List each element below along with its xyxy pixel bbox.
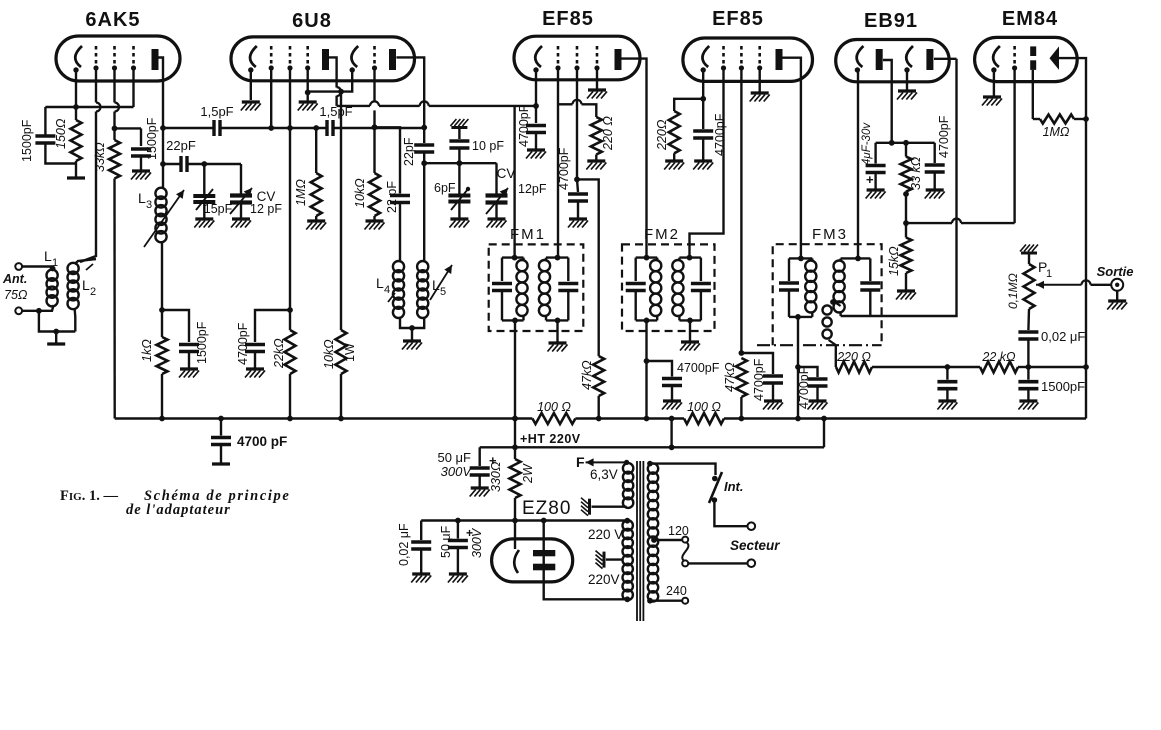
node V4 cathode junction: [700, 96, 706, 102]
label tube V3 EF85: [542, 8, 594, 30]
anode lead V4: [783, 58, 801, 259]
flexible link: [682, 542, 688, 560]
wire EZ80 plates loop: [544, 521, 628, 600]
label R9 47k: [580, 360, 594, 390]
wire V4 g3 to ground: [759, 68, 761, 92]
wire R5 to ground: [315, 216, 317, 221]
wire FM2 sec leads b: [678, 316, 680, 320]
ground below C14: [763, 401, 783, 410]
ground below C18: [1018, 401, 1038, 410]
svg-text:CV: CV: [497, 166, 516, 181]
cathode arc EZ80: [514, 550, 519, 573]
resistor R17 100 decoupling: [532, 413, 575, 424]
label L3 subscript: [146, 199, 152, 211]
wire R3 to rail: [161, 374, 163, 419]
label R16 1M: [1043, 125, 1070, 139]
wire FM1 sec leads b: [545, 316, 547, 320]
anode lead V2 pentode: [329, 57, 337, 87]
ground above C9: [450, 119, 468, 128]
caption figure line1a: [60, 488, 118, 504]
label C20 4700pF: [937, 115, 951, 158]
wire V1 g2 down: [113, 112, 115, 141]
inductor FM2 secondary: [672, 260, 683, 316]
svg-text:0,02 μF: 0,02 μF: [1041, 329, 1085, 344]
wire C2 top lead: [140, 128, 142, 146]
transformer FM3 box: [757, 244, 882, 345]
node HV bottom: [624, 596, 630, 602]
wire CV1 to ground: [240, 203, 242, 220]
svg-text:300V: 300V: [441, 464, 473, 479]
ground below CT2: [449, 219, 469, 228]
label R12 220: [836, 350, 871, 364]
wire R15 to ground: [905, 273, 907, 291]
wire bus y128 mid: [220, 127, 327, 129]
capacitor C10 4700pF: [245, 345, 265, 352]
label C9 10pF: [472, 139, 504, 153]
antenna terminal top: [15, 263, 22, 270]
label C13 4700pF: [713, 113, 727, 156]
wire FM1 coil leads2: [522, 316, 524, 320]
node rail FM2 tap: [669, 416, 675, 422]
svg-text:50 μF: 50 μF: [439, 525, 453, 558]
wire C12 to ground: [577, 201, 579, 219]
capacitor C16 4700pF: [808, 379, 828, 386]
anode lead V3: [622, 59, 647, 258]
svg-text:EM84: EM84: [1002, 8, 1058, 30]
potentiometer P1 0.1M: [1024, 264, 1035, 309]
label 240: [666, 584, 687, 598]
capacitor C12 4700pF screen: [568, 194, 588, 201]
ground below C6: [179, 369, 199, 378]
node osc grid cap tap dot: [372, 124, 378, 130]
node FM3 junction 367: [795, 364, 801, 370]
node FM3 rail: [795, 416, 801, 422]
wire V1 cathode: [75, 70, 77, 107]
label L2: [82, 277, 90, 293]
node FM3 tank1 lead: [798, 256, 804, 262]
label tube V7 EZ80: [522, 498, 571, 519]
tube V4 EF85: [683, 38, 813, 81]
node V4 g2 junction: [739, 350, 745, 356]
svg-text:EB91: EB91: [864, 10, 918, 32]
ground sideways HV tap: [596, 551, 605, 569]
switch Int: [709, 472, 722, 503]
node FM2 tank1 lead: [644, 255, 650, 261]
wire bus y106 c: [429, 105, 536, 107]
label C3 1.5pF: [200, 104, 233, 119]
hop branch over g2: [573, 100, 582, 105]
svg-text:22 kΩ: 22 kΩ: [981, 350, 1016, 364]
wire R19 to cathode line: [514, 498, 516, 521]
resistor R19 330 2W: [510, 459, 521, 498]
wire FM3 tank1 cap bottom: [788, 290, 790, 317]
svg-text:3: 3: [146, 199, 152, 211]
wire HV center tap: [606, 558, 623, 560]
node FM2 tank1 bottom lead: [644, 318, 650, 324]
wire V4 cathode: [702, 70, 704, 129]
label L5: [432, 277, 440, 293]
inductor FM3 secondary: [834, 261, 845, 313]
wire EB91 cathode1 to FM3: [857, 70, 859, 258]
svg-text:1,5pF: 1,5pF: [200, 104, 233, 119]
terminal secteur 2: [748, 559, 756, 567]
wire V3 cathode: [535, 70, 537, 123]
label P1: [1038, 259, 1047, 275]
label L3: [138, 190, 146, 206]
wire V2 g1 pin to bus: [270, 68, 272, 128]
wire V2 g3 pin down: [307, 68, 309, 102]
wire C24 lead: [457, 521, 459, 539]
wire trimmer CT1 lead: [203, 164, 205, 194]
wire FM2 tank1 cap bottom: [635, 291, 637, 321]
wire EZ80 cathode lead: [514, 521, 516, 550]
svg-text:FIG. 1. —: FIG. 1. —: [60, 488, 118, 504]
wire R11 to rail: [740, 397, 742, 419]
ground below C22: [212, 462, 230, 465]
node V3 cathode junction: [533, 103, 539, 109]
label C1 1500pF: [20, 119, 34, 162]
ground below R15: [896, 291, 916, 300]
wire branch to C6: [162, 310, 189, 342]
wire FM3 prim leads b: [811, 312, 813, 317]
wire C12 lead: [577, 179, 578, 192]
label P1 subscript: [1046, 268, 1052, 280]
svg-text:L: L: [432, 277, 440, 293]
wire C6 to ground: [188, 352, 190, 370]
inductor L4: [388, 261, 404, 318]
wire C5 to CV1: [187, 163, 241, 165]
wire V3 g2 down: [576, 68, 578, 179]
svg-text:1500pF: 1500pF: [1041, 379, 1085, 394]
wire CV1 top lead: [240, 164, 242, 194]
caption figure line2: [126, 502, 231, 518]
wire switch to secteur1: [714, 500, 747, 526]
label tube V4 EF85: [712, 8, 764, 30]
wire bus y106 a: [337, 105, 370, 107]
capacitor FM2 tank1: [626, 284, 646, 291]
wire C9 to y163: [458, 148, 460, 163]
wire FM2 tank1 down: [645, 320, 647, 418]
wire CV2 top lead: [495, 163, 497, 193]
wire C24 to ground: [457, 548, 459, 575]
label R15 15k: [887, 246, 901, 276]
wire R1 to ground: [75, 161, 77, 178]
wire resistor R1 leads: [75, 107, 77, 120]
ground below FM2: [680, 342, 700, 351]
wire 6.3V bottom: [592, 506, 627, 508]
svg-text:4700pF: 4700pF: [937, 115, 951, 158]
node R14 bottom: [903, 191, 909, 197]
wire tertiary down: [835, 345, 837, 367]
svg-text:220 V: 220 V: [588, 527, 623, 542]
svg-text:4700pF: 4700pF: [677, 361, 720, 375]
wire tap 120: [653, 539, 682, 541]
svg-text:10kΩ: 10kΩ: [353, 178, 367, 208]
node V2 g3 junction: [305, 90, 311, 96]
wire FM1 tank1 top: [502, 256, 524, 258]
wire C2 bottom lead: [140, 156, 142, 171]
ground below R5: [306, 221, 326, 230]
wire divider to EM84 grid a: [906, 222, 952, 224]
svg-text:12pF: 12pF: [518, 182, 547, 196]
wire branch to C10: [255, 310, 290, 342]
wire C18 to ground: [1027, 389, 1029, 401]
resistor R5 1M: [311, 173, 322, 216]
wire L1 bottom: [39, 305, 54, 311]
rail y418 mid: [575, 417, 684, 419]
label C6 1500pF: [195, 321, 209, 364]
inductor FM1 secondary: [539, 260, 550, 316]
wire V1 g1 to L2: [95, 68, 97, 103]
svg-text:Int.: Int.: [724, 479, 744, 494]
wire C17 lead: [946, 367, 948, 380]
wire ant bottom terminal: [22, 310, 39, 312]
wire C23 from HT rail: [479, 447, 481, 466]
wire tap 240: [648, 600, 682, 602]
label R6 1W: [343, 343, 357, 362]
wire triode cathode staircase: [308, 71, 353, 92]
resistor R15 15k: [901, 238, 912, 274]
wire capacitor C1 bottom lead: [45, 143, 76, 164]
node g2 6U8 on bus: [287, 125, 293, 131]
node anode V1 y164: [160, 161, 166, 167]
winding primary: [648, 463, 658, 601]
wire FM1 tank1 sides: [501, 258, 503, 281]
ground below V4 g3: [750, 93, 770, 102]
inductor FM3 primary: [805, 261, 816, 313]
node FM2 tank2 bottom lead: [687, 318, 693, 324]
wire L4 L5 common: [400, 317, 424, 328]
capacitor FM1 tank1: [492, 284, 512, 291]
wire branch to C16: [798, 367, 818, 377]
label FM1: [510, 226, 546, 243]
svg-text:EF85: EF85: [712, 8, 764, 30]
label F: [576, 454, 585, 470]
ground below CV2: [487, 219, 507, 228]
label C2 1500pF: [145, 117, 159, 160]
wire FM3 sec leads b: [839, 312, 841, 316]
node osc grid cap tap: [372, 124, 378, 130]
label L4 subscript: [384, 284, 390, 296]
hop anode1 over staircase: [337, 87, 342, 96]
wire C20 to ground: [934, 172, 936, 190]
svg-text:22 pF: 22 pF: [385, 181, 399, 213]
wire R10 to ground: [673, 153, 675, 161]
ground below C11: [526, 150, 546, 159]
wire rail drop to HT: [823, 419, 825, 448]
transformer FM1 box: [489, 244, 584, 331]
capacitor C2 1500pF g2 bypass: [131, 149, 151, 156]
capacitor FM3 secondary cap: [860, 283, 880, 290]
node FM3 tank1 bottom lead: [795, 314, 801, 320]
capacitor C5 22pF: [181, 156, 187, 172]
capacitor C18 1500pF: [1018, 382, 1038, 389]
ground below CV1: [231, 219, 251, 228]
label tube V6 EM84: [1002, 8, 1058, 30]
svg-text:220 Ω: 220 Ω: [601, 116, 615, 151]
resistor R2 33k screen: [109, 140, 120, 179]
svg-text:33kΩ: 33kΩ: [93, 142, 107, 172]
label R18 100: [687, 400, 721, 414]
inductor FM2 primary: [650, 260, 661, 316]
svg-text:15kΩ: 15kΩ: [887, 246, 901, 276]
inductor L3 oscillator coil: [144, 188, 184, 247]
node cathode tap: [512, 518, 518, 524]
label C15 4700pF: [677, 361, 720, 375]
hop wiper over HT line: [1082, 280, 1091, 285]
wire R5 top lead: [315, 128, 317, 173]
svg-text:4: 4: [384, 284, 390, 296]
label tube V2 6U8: [292, 10, 332, 32]
node 1M on bus: [313, 125, 319, 131]
svg-text:2: 2: [90, 286, 96, 298]
svg-text:22pF: 22pF: [402, 137, 416, 166]
label CT2 6pF: [434, 181, 456, 195]
label R4 10k: [353, 178, 367, 208]
node R3 rail: [159, 416, 165, 422]
label C5 22pF: [166, 138, 196, 153]
node primary tap 120: [651, 537, 657, 543]
label P1 value: [1006, 273, 1020, 309]
wire divider to EM84 grid b: [961, 222, 1015, 224]
wire coil ground stem: [411, 328, 413, 341]
label R17 100: [537, 400, 571, 414]
label R13 22k: [981, 350, 1016, 364]
wire detector node bus: [876, 142, 935, 144]
wire R9 to rail: [598, 396, 600, 419]
wire C14 to ground: [772, 383, 774, 401]
label R1 150 ohm: [54, 118, 68, 149]
winding 6.3V: [623, 463, 633, 508]
svg-text:6AK5: 6AK5: [85, 9, 140, 31]
node HT feed rail1: [512, 416, 518, 422]
wire R16 to anode line: [1074, 118, 1086, 120]
svg-text:Sortie: Sortie: [1097, 264, 1134, 279]
node FM2 tank2 lead: [687, 255, 693, 261]
svg-text:12 pF: 12 pF: [250, 202, 282, 216]
wire FM2 tank2 cap side: [700, 258, 702, 281]
node C24 tap: [455, 518, 461, 524]
ground below R10: [664, 161, 684, 170]
svg-text:4700 pF: 4700 pF: [237, 434, 287, 449]
node FM1 rail: [512, 416, 518, 422]
wire V4 g1 to FM2: [690, 68, 724, 258]
label C21 0.02uF: [1041, 329, 1085, 344]
ground below FM1: [548, 343, 568, 352]
wire CT1 to ground: [203, 202, 205, 219]
wire bus y128 left: [163, 127, 214, 129]
capacitor C24 50uF: [448, 526, 473, 548]
svg-text:4700pF: 4700pF: [236, 322, 250, 365]
wire R16 lead: [1033, 118, 1040, 120]
wire C25 to ground: [420, 549, 422, 574]
node rail link bottom: [669, 444, 675, 450]
wire R2 to bottom rail: [113, 179, 116, 419]
ground below V2 g3: [298, 102, 318, 111]
wire C20 lead: [934, 143, 936, 163]
wire V1 g1 down to L2 top: [80, 112, 96, 263]
ground below C13: [693, 161, 713, 170]
svg-text:6U8: 6U8: [292, 10, 332, 32]
capacitor C20 4700pF: [925, 165, 945, 172]
resistor R1 150 ohm cathode: [71, 120, 82, 161]
svg-text:1500pF: 1500pF: [195, 321, 209, 364]
ground below C24: [448, 574, 468, 583]
capacitor C8 22pF padder: [414, 145, 434, 152]
svg-text:22pF: 22pF: [166, 138, 196, 153]
ground below R8: [586, 161, 606, 170]
ground below C25: [411, 574, 431, 583]
label R10 220: [655, 119, 669, 151]
label C18 1500pF: [1041, 379, 1085, 394]
node HT audio junction: [1083, 364, 1089, 370]
label C24 300V: [470, 527, 484, 558]
anode1 lead EB91: [883, 60, 892, 143]
svg-text:220 Ω: 220 Ω: [836, 350, 871, 364]
wire ant ground run: [39, 311, 75, 332]
svg-text:5: 5: [440, 286, 446, 298]
node R11 rail: [739, 416, 745, 422]
svg-text:FM2: FM2: [644, 226, 680, 243]
wire g2 stub to C2: [115, 127, 142, 129]
tube V1 6AK5: [56, 36, 180, 81]
wire C10 to ground: [254, 352, 256, 370]
capacitor C13 4700pF cathode: [693, 131, 713, 138]
wire FM2 tank2 bottom: [679, 319, 701, 321]
ground below R4: [365, 221, 385, 230]
svg-text:240: 240: [666, 584, 687, 598]
label tube V1 6AK5: [85, 9, 140, 31]
ground below C10: [245, 369, 265, 378]
wire C19 lead: [874, 143, 876, 164]
ground below R1: [67, 176, 85, 179]
tube V5 EB91 double diode: [836, 40, 950, 82]
wire R7 leads: [289, 310, 291, 330]
wire mid tap to secteur2: [688, 562, 747, 564]
wire anode V1 to L3: [162, 164, 164, 189]
wire R8 to ground: [595, 155, 597, 162]
wire R14 leads: [905, 143, 907, 157]
hop g2 wire over cathode bus: [115, 103, 120, 112]
anode lead V1: [159, 58, 164, 129]
label CT1 15pF: [204, 202, 233, 216]
wire FM3 prim leads: [811, 258, 813, 261]
node R9 rail: [596, 416, 602, 422]
label L5 subscript: [440, 286, 446, 298]
resistor R11 47k: [736, 358, 747, 397]
resistor R12 220: [836, 362, 872, 373]
svg-text:EF85: EF85: [542, 8, 594, 30]
wire L2 bottom: [73, 308, 76, 332]
ground sideways 6.3V: [581, 498, 590, 516]
svg-text:1500pF: 1500pF: [145, 117, 159, 160]
capacitor C25 0.02uF: [411, 542, 431, 549]
wire V3 g1 to FM1: [557, 68, 559, 258]
svg-text:1MΩ: 1MΩ: [1043, 125, 1070, 139]
node 10pF-6pF junction: [457, 160, 463, 166]
node R6 rail: [338, 416, 344, 422]
wire HT feed vertical: [514, 419, 516, 460]
resistor R10 220 cathode: [669, 111, 680, 153]
variable capacitor CV1: [230, 188, 252, 214]
capacitor C22 4700pF rail: [211, 438, 231, 445]
label 220V top: [588, 527, 623, 542]
wire CV2 to ground: [495, 203, 497, 220]
label C10 4700pF: [236, 322, 250, 365]
node 33k junction: [903, 140, 909, 146]
label C8 22pF: [402, 137, 416, 166]
wire V6 grid down: [1013, 68, 1015, 223]
